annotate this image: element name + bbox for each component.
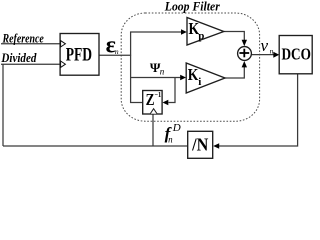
wire branch vertical	[130, 32, 132, 104]
svg-text:v: v	[261, 36, 269, 55]
svg-text:p: p	[198, 30, 204, 42]
register Z^-1	[143, 91, 162, 115]
arrowhead into Kp	[181, 29, 187, 35]
wire feedback bottom	[3, 145, 188, 147]
svg-text:n: n	[115, 47, 119, 56]
wire PFD output epsilon	[99, 54, 131, 56]
summer	[238, 47, 252, 61]
arrowhead into divider /N	[213, 143, 219, 149]
open arrowhead Reference into PFD	[61, 41, 66, 47]
wire Z output	[130, 102, 143, 104]
svg-text:−1: −1	[154, 90, 161, 99]
svg-text:n: n	[168, 135, 173, 145]
wire summer output to DCO	[251, 54, 276, 56]
wire drop to Z input	[169, 78, 176, 103]
svg-text:K: K	[188, 65, 199, 84]
arrowhead into summer bottom	[242, 61, 247, 67]
open arrowhead Divided into PFD	[61, 61, 66, 67]
loop filter dotted boundary	[121, 13, 259, 121]
divider /N box	[188, 131, 213, 158]
wire Reference input	[1, 43, 60, 45]
svg-text:Reference: Reference	[2, 31, 44, 46]
wire psi line to Ki	[130, 77, 181, 79]
svg-text:n: n	[160, 67, 165, 77]
wire Kp output to summer	[224, 32, 245, 42]
arrowhead into summer top	[242, 40, 247, 46]
arrowhead into DCO	[273, 52, 279, 58]
svg-text:/N: /N	[191, 134, 208, 154]
amplifier Ki	[186, 63, 225, 93]
svg-text:i: i	[198, 76, 201, 88]
DCO box	[279, 36, 312, 74]
svg-text:PFD: PFD	[66, 45, 92, 66]
wire Ki output to summer	[225, 67, 244, 79]
svg-text:D: D	[172, 122, 181, 134]
wire Divided input	[1, 63, 60, 65]
svg-text:Loop Filter: Loop Filter	[164, 0, 221, 13]
arrowhead into Z right side	[163, 100, 169, 105]
wire feedback left vertical	[2, 64, 4, 146]
wire clock branch to Z	[152, 114, 154, 146]
arrowhead into Ki	[180, 75, 186, 81]
amplifier Kp	[187, 18, 224, 46]
wire DCO output down to divider	[216, 74, 298, 146]
svg-text:Divided: Divided	[1, 50, 37, 65]
PFD box	[60, 34, 99, 76]
svg-text:Z: Z	[146, 90, 155, 109]
clock wedge on Z	[150, 109, 157, 114]
wire Kp input	[130, 31, 182, 33]
svg-text:DCO: DCO	[282, 45, 311, 64]
svg-text:n: n	[270, 46, 274, 55]
